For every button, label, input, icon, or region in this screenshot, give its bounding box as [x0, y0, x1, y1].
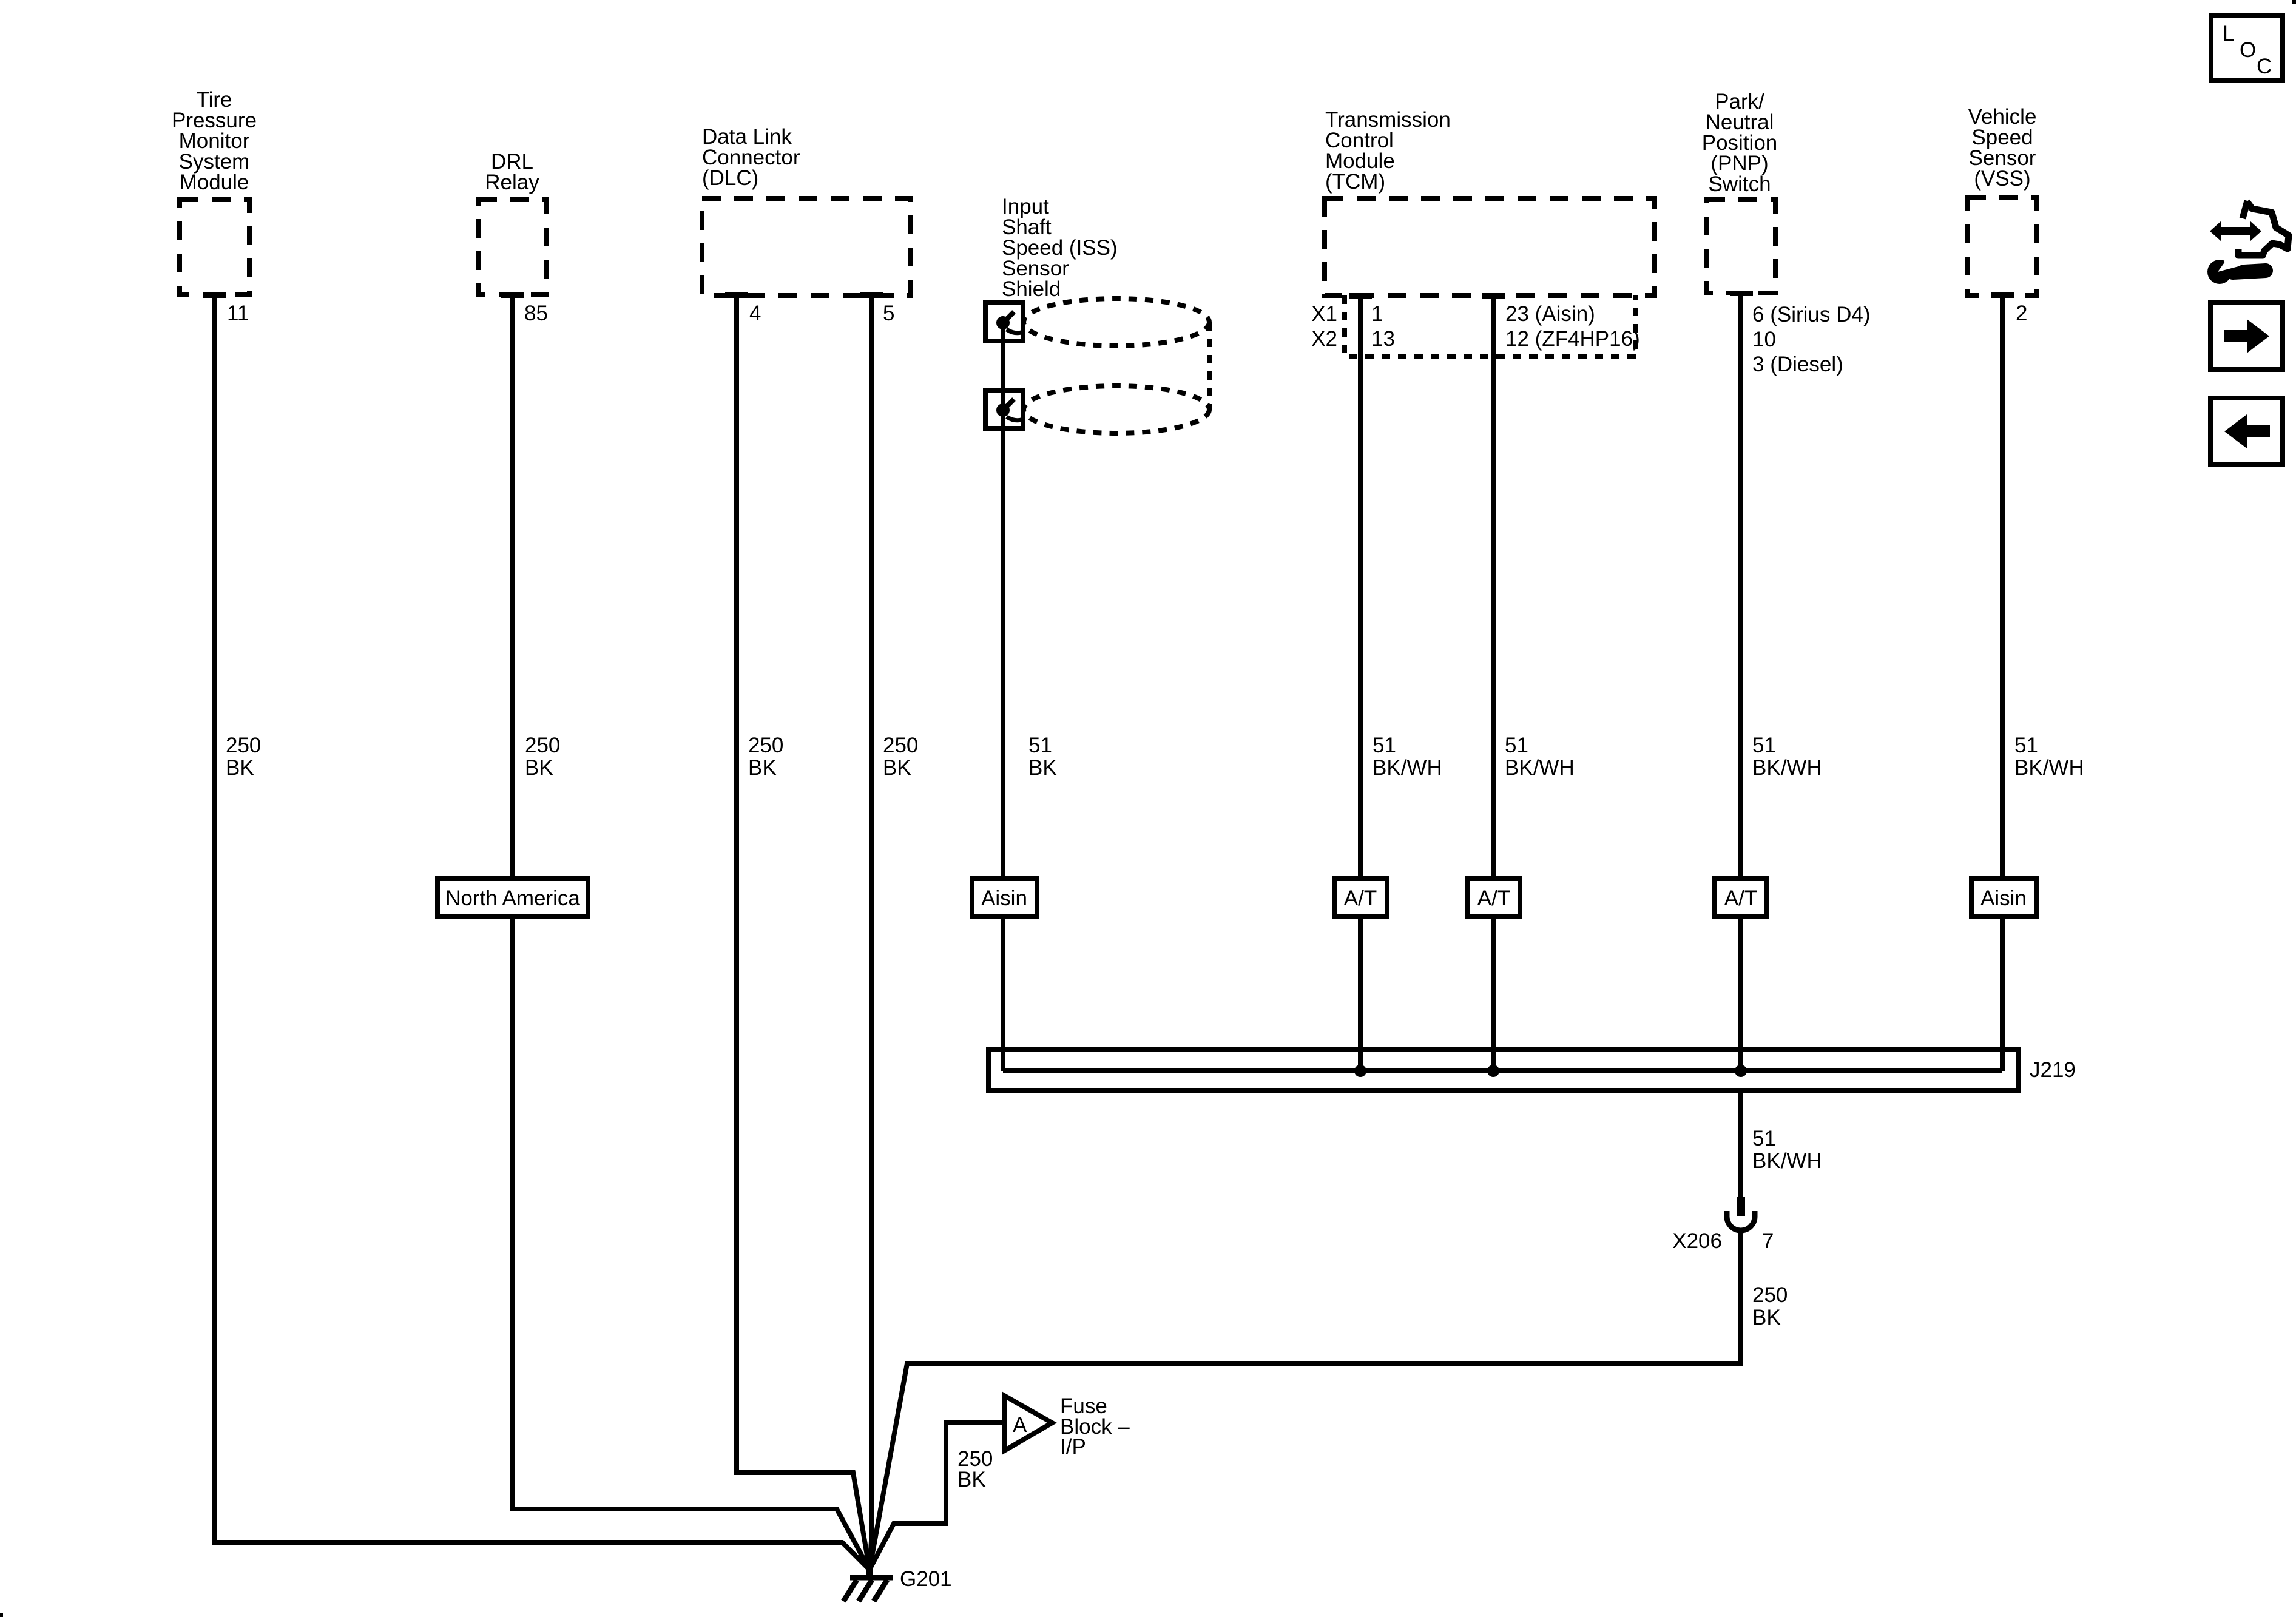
svg-text:13: 13 — [1371, 327, 1395, 351]
pin tick TPM — [203, 292, 226, 298]
svg-text:Aisin: Aisin — [981, 886, 1027, 910]
svg-text:85: 85 — [524, 302, 548, 325]
wire DLC pin 4 to ground (250 BK) — [737, 295, 869, 1570]
DRL Relay box — [478, 200, 547, 295]
node PNP label — [1702, 90, 1778, 196]
svg-text:Module: Module — [180, 170, 249, 194]
svg-text:(TCM): (TCM) — [1325, 170, 1385, 194]
svg-text:BK: BK — [226, 756, 254, 780]
svg-text:250: 250 — [1752, 1283, 1788, 1307]
ISS shield connector square lower — [985, 390, 1023, 428]
wire label 51 BK/WH (PNP) — [1752, 734, 1822, 780]
shield cylinder bottom ellipse (dashed) — [1024, 386, 1209, 433]
svg-text:250: 250 — [748, 734, 783, 757]
vehicle outline — [2243, 201, 2247, 218]
svg-text:X206: X206 — [1672, 1229, 1722, 1253]
svg-text:6 (Sirius D4): 6 (Sirius D4) — [1752, 303, 1870, 326]
svg-text:Relay: Relay — [485, 170, 539, 194]
svg-text:51: 51 — [2014, 734, 2038, 757]
svg-text:BK/WH: BK/WH — [1752, 1149, 1822, 1173]
wire PNP pin to bus (51 BK/WH) — [1738, 293, 1743, 1071]
svg-text:BK: BK — [883, 756, 911, 780]
legend arrow box (forward) — [2210, 303, 2283, 370]
svg-text:(VSS): (VSS) — [1974, 167, 2030, 191]
wire label 51 BK (ISS) — [1028, 734, 1057, 780]
svg-text:1: 1 — [1371, 302, 1383, 326]
svg-text:A/T: A/T — [1724, 886, 1757, 910]
wire label 51 BK/WH (TCM pin1) — [1373, 734, 1442, 780]
svg-text:I/P: I/P — [1060, 1435, 1086, 1459]
LOC legend box — [2211, 16, 2283, 81]
pin tick TCM pin23 — [1482, 293, 1505, 299]
wire DLC pin 5 to ground (250 BK) — [869, 295, 871, 1570]
node ISS label — [1002, 195, 1118, 301]
svg-text:51: 51 — [1373, 734, 1396, 757]
wire label 250 BK (X206) — [1752, 1283, 1788, 1329]
svg-text:North America: North America — [445, 886, 580, 910]
North America option box — [437, 879, 588, 916]
wire ISS drain to bus (51 BK) — [1001, 323, 1005, 1071]
wire ground to fuse block (250 BK) — [869, 1423, 1004, 1570]
Aisin option box (ISS) — [972, 879, 1037, 916]
svg-text:51: 51 — [1752, 734, 1776, 757]
pin tick TCM pin1 — [1349, 293, 1372, 299]
Tire Pressure Monitor System Module box — [180, 200, 249, 295]
svg-text:C: C — [2257, 55, 2272, 78]
pin 1 / 13 labels — [1371, 302, 1395, 351]
node Fuse Block I/P label — [1060, 1394, 1130, 1459]
junction dot TCM1 — [1354, 1065, 1366, 1077]
svg-text:A: A — [1013, 1413, 1027, 1437]
pin tick VSS — [1991, 292, 2014, 298]
svg-text:G201: G201 — [900, 1567, 952, 1591]
legend arrow box (back) — [2210, 398, 2283, 465]
svg-text:A/T: A/T — [1477, 886, 1510, 910]
svg-text:BK/WH: BK/WH — [1373, 756, 1442, 780]
svg-text:51: 51 — [1752, 1127, 1776, 1150]
node DRL label — [485, 150, 539, 194]
junction dot TCM23 — [1487, 1065, 1499, 1077]
junction dot PNP — [1735, 1065, 1747, 1077]
splice bus J219 rectangle — [988, 1050, 2018, 1090]
Aisin option box (VSS) — [1971, 879, 2036, 916]
svg-text:51: 51 — [1028, 734, 1052, 757]
pin tick DLC4 — [725, 292, 748, 298]
svg-text:BK/WH: BK/WH — [1505, 756, 1575, 780]
node TPM label — [172, 88, 257, 194]
Transmission Control Module box — [1325, 198, 1655, 295]
wire X206 to ground (250 BK) — [869, 1230, 1741, 1570]
svg-text:BK: BK — [525, 756, 553, 780]
svg-text:Aisin: Aisin — [1980, 886, 2027, 910]
svg-text:7: 7 — [1762, 1229, 1774, 1253]
svg-text:X2: X2 — [1311, 327, 1337, 351]
wire splice to X206 (51 BK/WH) — [1738, 1090, 1743, 1198]
svg-text:X1: X1 — [1311, 302, 1337, 326]
pin tick PNP — [1730, 291, 1753, 296]
svg-text:L: L — [2223, 22, 2234, 46]
svg-text:(DLC): (DLC) — [702, 166, 758, 190]
pin tick DRL — [501, 292, 524, 298]
wire label 51 BK/WH (TCM pin23) — [1505, 734, 1575, 780]
pin 6/10/3 labels — [1752, 303, 1870, 376]
pin 23 / 12 labels — [1505, 302, 1640, 351]
fuse block feed triangle A — [1004, 1396, 1052, 1451]
shield cylinder top ellipse (dashed) — [1024, 299, 1209, 346]
svg-text:10: 10 — [1752, 328, 1776, 351]
Vehicle Speed Sensor box — [1967, 198, 2037, 295]
wire label 250 BK (TPM) — [226, 734, 261, 780]
svg-text:Shield: Shield — [1002, 277, 1061, 301]
node TCM label — [1325, 108, 1451, 194]
svg-text:23 (Aisin): 23 (Aisin) — [1505, 302, 1595, 326]
wire label 250 BK (DLC4) — [748, 734, 783, 780]
svg-text:250: 250 — [525, 734, 560, 757]
svg-text:BK: BK — [1752, 1306, 1781, 1329]
wrench — [2233, 271, 2266, 272]
ISS shield connector square upper — [985, 303, 1023, 341]
wire TCM pin 1 to bus (51 BK/WH) — [1358, 295, 1363, 1071]
connector X206 female cup — [1727, 1211, 1755, 1230]
page corner mark bottom-left — [0, 1613, 3, 1617]
svg-text:BK/WH: BK/WH — [1752, 756, 1822, 780]
wire VSS pin 2 to bus (51 BK/WH) — [2000, 295, 2005, 1071]
svg-text:2: 2 — [2016, 302, 2027, 325]
node DLC label — [702, 125, 800, 190]
Data Link Connector box — [702, 198, 910, 295]
wire TPM pin 11 to ground (250 BK) — [214, 295, 869, 1570]
wire label 250 BK (DRL) — [525, 734, 560, 780]
A/T option box (PNP) — [1715, 879, 1767, 916]
svg-text:Switch: Switch — [1708, 172, 1771, 196]
splice bus inner wire — [1003, 1068, 2002, 1073]
ground G201 symbol — [843, 1564, 893, 1601]
service info icon (vehicle with arrow and wrench) — [2207, 201, 2289, 284]
svg-text:BK: BK — [957, 1468, 986, 1491]
svg-text:BK: BK — [748, 756, 777, 780]
wire TCM pin 23 to bus (51 BK/WH) — [1491, 295, 1496, 1071]
connector X206 male pin — [1737, 1197, 1745, 1216]
Park/Neutral Position Switch box — [1706, 200, 1775, 293]
svg-text:BK/WH: BK/WH — [2014, 756, 2084, 780]
svg-text:J219: J219 — [2030, 1058, 2076, 1082]
svg-text:4: 4 — [749, 302, 761, 325]
page corner mark top-right — [2292, 0, 2296, 4]
svg-text:BK: BK — [1028, 756, 1057, 780]
svg-text:5: 5 — [883, 302, 894, 325]
wire DRL pin 85 to ground (250 BK) — [512, 295, 869, 1570]
wire label 250 BK (DLC5) — [883, 734, 918, 780]
shield cylinder right side (dashed) — [1207, 322, 1212, 410]
wire label 51 BK/WH (below bus) — [1752, 1127, 1822, 1173]
double arrow — [2210, 221, 2261, 241]
svg-text:51: 51 — [1505, 734, 1528, 757]
pin tick DLC5 — [860, 292, 883, 298]
wire label 51 BK/WH (VSS) — [2014, 734, 2084, 780]
svg-text:11: 11 — [227, 302, 249, 325]
TCM connector box (fine dashed) — [1345, 295, 1636, 357]
svg-text:250: 250 — [226, 734, 261, 757]
svg-text:12 (ZF4HP16): 12 (ZF4HP16) — [1505, 327, 1640, 351]
node VSS label — [1968, 105, 2037, 191]
A/T option box (TCM pin1) — [1334, 879, 1387, 916]
svg-text:3 (Diesel): 3 (Diesel) — [1752, 353, 1843, 376]
svg-text:A/T: A/T — [1344, 886, 1377, 910]
A/T option box (TCM pin23) — [1468, 879, 1520, 916]
wire label 250 BK (fuse) — [957, 1447, 993, 1491]
svg-text:250: 250 — [883, 734, 918, 757]
svg-text:O: O — [2240, 38, 2256, 62]
